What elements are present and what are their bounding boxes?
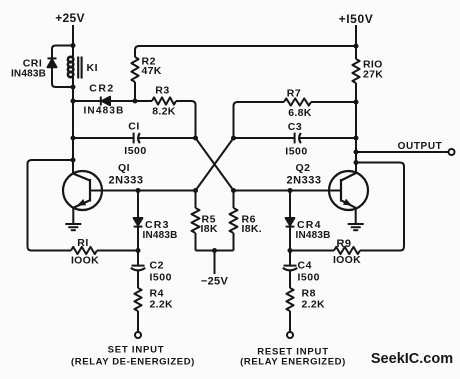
resistor R10 [352,59,359,83]
wire CR1 branch loop [52,46,73,88]
junction Q1 base / R5 [193,188,198,193]
wire CR2 horizontal [73,100,135,102]
svg-text:2.2K: 2.2K [302,299,325,311]
junction Q2 base / CR4 [288,188,293,193]
wire output [356,151,449,153]
junction Q1 collector node / CR2 [71,99,76,104]
wire R3 down to node A [195,110,197,138]
svg-text:2.2K: 2.2K [150,299,173,311]
svg-text:C3: C3 [288,121,302,133]
svg-text:(RELAY DE-ENERGIZED): (RELAY DE-ENERGIZED) [71,357,195,368]
svg-text:IN483B: IN483B [296,230,331,241]
terminal RESET input [287,332,293,338]
svg-text:8.2K: 8.2K [152,106,175,118]
transistor Q1 [63,171,102,210]
wire left feedback loop to R1 [28,160,74,251]
svg-text:RI: RI [77,237,89,249]
svg-text:+I50V: +I50V [339,12,374,26]
junction CR4 / C4 / R9 [288,248,293,253]
wire R9 feedback loop [356,163,404,251]
wire Q1 emitter to ground [72,208,74,224]
svg-text:(RELAY ENERGIZED): (RELAY ENERGIZED) [240,357,346,368]
junction Q1 collector node / R1 loop [71,158,76,163]
wire Q2 base line [234,190,342,192]
svg-text:I8K: I8K [201,223,218,235]
node RESET INPUT label [240,347,346,368]
junction CR2 / R2 / R3 [133,99,138,104]
resistor R2 [135,46,139,57]
svg-text:−25V: −25V [201,276,229,288]
resistor R4 [134,288,141,311]
resistor R7 [234,102,285,138]
ground (Q1 emitter) [65,224,81,230]
junction CR3 / C2 / R1 [136,248,141,253]
svg-text:IN483B: IN483B [83,106,124,117]
junction Q1 base / CR3 [136,188,141,193]
svg-text:CR2: CR2 [89,83,115,95]
capacitor C4 [284,265,297,267]
svg-text:I8K.: I8K. [242,223,262,235]
svg-text:47K: 47K [142,65,162,77]
svg-text:I500: I500 [285,146,307,158]
resistor R8 [286,288,293,311]
resistor R6 [233,191,235,209]
node SET INPUT label [71,345,195,368]
svg-text:I500: I500 [150,272,172,284]
capacitor C3 [234,137,295,139]
node A (R3-C1 junction) [193,136,198,141]
resistor R5 [195,191,197,209]
terminal SET input [135,332,141,338]
terminal OUTPUT [449,149,455,155]
svg-text:I500: I500 [124,145,146,157]
transistor Q2 [329,171,368,210]
relay coil K1 [68,57,73,77]
junction Q2 base / R6 [231,188,236,193]
junction CR1-K1 bottom [71,85,76,90]
svg-text:2N333: 2N333 [287,175,322,187]
wire -25V bus [196,250,234,252]
svg-text:IOOK: IOOK [71,255,99,267]
svg-text:6.8K: 6.8K [288,107,311,119]
svg-text:C2: C2 [150,260,164,272]
svg-text:27K: 27K [363,69,383,81]
diode CR2 [101,97,110,106]
junction Q2 collector node / R9 loop [354,160,359,165]
emitter arrow Q1 [77,199,86,206]
diode CR1 [48,58,57,67]
svg-text:R9: R9 [336,238,351,250]
diode CR3 [137,191,139,219]
capacitor C1 [73,137,134,139]
resistor R1 [71,247,97,254]
svg-text:+25V: +25V [55,11,85,25]
ground (Q2 emitter) [348,224,364,230]
svg-text:I500: I500 [298,272,320,284]
emitter arrow Q2 [343,199,352,206]
node B (R7-C3 junction) [231,136,236,141]
resistor R9 [334,247,360,254]
svg-text:SET INPUT: SET INPUT [108,345,165,356]
junction Q2 collector node / C3 [354,136,359,141]
junction R10 / R7 [354,100,359,105]
junction +150V rail / top rail [354,44,359,49]
wire cross-coupling diagonal node A to Q2 base node [196,138,234,191]
node +25V supply label [55,11,85,25]
wire +25V vertical rail [72,25,74,174]
SeekIC watermark [371,351,453,367]
svg-text:QI: QI [118,162,130,174]
svg-text:Q2: Q2 [295,162,310,174]
diode CR4 [289,191,291,219]
node +150V supply label [339,12,374,26]
node -25V supply label [201,276,229,288]
wire cross-coupling diagonal node B to Q1 base node [196,138,234,191]
svg-text:CI: CI [128,121,140,133]
wire +150V vertical rail [355,25,357,59]
svg-text:R7: R7 [287,88,301,100]
svg-text:IOOK: IOOK [333,254,361,266]
svg-text:KI: KI [87,62,99,74]
junction +25V rail / CR1-K1 top [71,43,76,48]
net label OUTPUT [398,141,443,152]
wire top rail R2 to R10 [138,45,356,47]
svg-text:2N333: 2N333 [109,175,144,187]
svg-text:OUTPUT: OUTPUT [398,141,443,152]
wire Q1 base line [90,190,196,192]
svg-text:IN483B: IN483B [143,230,178,241]
svg-text:SeekIC.com: SeekIC.com [371,351,453,367]
junction Q1 collector node / C1 [71,136,76,141]
capacitor C2 [132,265,145,267]
svg-text:IN483B: IN483B [11,69,46,80]
resistor R3 [135,100,152,102]
junction R5-R6 bus / -25V stub [212,248,217,253]
svg-text:C4: C4 [298,260,312,272]
svg-text:R3: R3 [155,85,169,97]
junction Q2 collector node / output [354,150,359,155]
wire Q2 emitter to ground [355,208,357,224]
